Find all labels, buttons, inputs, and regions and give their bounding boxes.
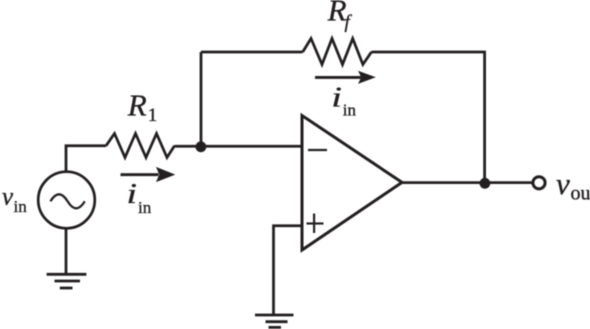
wire: noninverting input to ground [274, 226, 303, 314]
wire: feedback top left segment [201, 51, 303, 54]
svg-text:i: i [331, 83, 342, 114]
op-amp U1 [302, 116, 402, 251]
sine wave inside source [50, 194, 84, 208]
wire: source top to R1 input [66, 146, 106, 172]
voltage source V1 [38, 172, 95, 229]
output terminal circle [533, 177, 545, 189]
svg-text:f: f [345, 12, 353, 33]
resistor Rf [303, 39, 372, 65]
ground: source [47, 274, 87, 288]
svg-text:out: out [571, 183, 590, 205]
node B (output junction) [480, 178, 491, 189]
svg-text:in: in [138, 198, 152, 217]
svg-text:in: in [343, 101, 357, 120]
wire: R1 to op-amp inverting input [175, 145, 303, 148]
svg-text:i: i [127, 179, 138, 210]
wire: source bottom to ground [65, 229, 68, 275]
current arrow i_in (input) [121, 167, 176, 182]
svg-text:R: R [127, 87, 147, 122]
wire: feedback top right segment and down to output [371, 52, 484, 183]
svg-text:v: v [2, 184, 14, 211]
wire: node A up to feedback [200, 52, 203, 146]
minus sign at inverting input [308, 149, 327, 151]
svg-text:1: 1 [148, 105, 158, 126]
wire: op-amp output to terminal [402, 181, 532, 184]
resistor R1 [106, 134, 175, 158]
svg-text:v: v [556, 166, 570, 201]
plus sign at noninverting input [307, 214, 324, 234]
node A (inverting input junction) [196, 141, 207, 152]
current arrow i_in (feedback) [315, 71, 376, 84]
ground: noninverting input [255, 315, 294, 327]
svg-text:in: in [14, 197, 28, 216]
